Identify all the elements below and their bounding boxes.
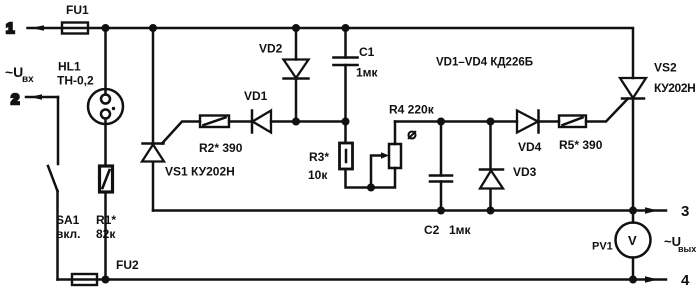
label ~Uвх [5, 64, 34, 85]
thyristor VS1 [142, 28, 235, 211]
svg-text:VD1–VD4 КД226Б: VD1–VD4 КД226Б [436, 57, 533, 69]
node top rail / VD2 branch [292, 24, 300, 32]
svg-text:ТН-0,2: ТН-0,2 [57, 74, 94, 88]
svg-text:10к: 10к [308, 168, 328, 182]
svg-text:FU1: FU1 [66, 3, 89, 17]
svg-text:V: V [628, 233, 637, 248]
svg-text:R1*: R1* [96, 213, 116, 227]
voltmeter PV1 [592, 223, 651, 280]
capacitor C2 [424, 122, 472, 238]
wire VD1 to node [271, 120, 346, 123]
resistor R2 [199, 116, 243, 156]
svg-text:R2* 390: R2* 390 [199, 141, 243, 155]
switch SA1 [48, 166, 81, 241]
svg-text:C2: C2 [424, 223, 440, 237]
label ~Uвых [664, 234, 696, 254]
svg-text:VS2: VS2 [654, 61, 677, 75]
lamp HL1 [57, 28, 123, 166]
svg-text:4: 4 [681, 272, 690, 289]
svg-text:82к: 82к [96, 227, 116, 241]
terminal 3 [645, 203, 689, 220]
svg-text:HL1: HL1 [58, 60, 81, 74]
svg-text:1мк: 1мк [449, 223, 472, 237]
potentiometer R4 [389, 103, 435, 169]
svg-text:2: 2 [11, 91, 19, 108]
svg-text:3: 3 [681, 203, 689, 220]
wire R4 node line [395, 120, 517, 123]
resistor R1 [96, 166, 116, 280]
adjustment symbol [409, 132, 416, 139]
diode VD1 [244, 89, 271, 133]
diode VD2 [259, 28, 309, 122]
node VD3 top [487, 118, 495, 126]
node VD2 bottom [292, 118, 300, 126]
svg-text:вых: вых [678, 244, 696, 254]
node VD3 bottom [487, 207, 495, 215]
wire VS1 gate [162, 122, 200, 144]
svg-text:VD4: VD4 [518, 140, 542, 154]
svg-text:SA1: SA1 [56, 213, 80, 227]
svg-text:R5* 390: R5* 390 [559, 138, 603, 152]
svg-text:1: 1 [6, 20, 14, 37]
svg-text:вх: вх [22, 74, 34, 85]
wire top rail [62, 28, 633, 78]
wire VD4 to R5 [539, 120, 560, 123]
wire line 3 [153, 209, 666, 212]
svg-text:VD2: VD2 [259, 42, 283, 56]
svg-text:~U: ~U [5, 64, 23, 80]
svg-text:R3*: R3* [309, 150, 329, 164]
node C2 bottom [437, 207, 445, 215]
svg-text:VD3: VD3 [513, 165, 537, 179]
terminal 4 [645, 272, 690, 289]
wire line 4 [58, 278, 667, 281]
svg-text:C1: C1 [359, 45, 375, 59]
wire R3 bottom to pot bottom [346, 168, 396, 188]
terminal 1 [6, 20, 62, 37]
thyristor VS2 [620, 61, 695, 223]
svg-text:вкл.: вкл. [56, 227, 81, 241]
svg-text:FU2: FU2 [116, 258, 139, 272]
node top rail / C1 branch [342, 24, 350, 32]
node VS2 line4 [629, 276, 637, 284]
node VS2 line3 [629, 207, 637, 215]
svg-text:R4 220к: R4 220к [389, 103, 435, 117]
fuse FU2 [72, 274, 97, 285]
resistor R3 [308, 122, 353, 183]
resistor R5 [559, 116, 603, 153]
fuse FU1 [62, 23, 88, 34]
diode VD4 [517, 111, 542, 155]
node top rail / HL1 branch [102, 24, 110, 32]
node C1 bottom / R3 top [342, 118, 350, 126]
wire wiper [371, 152, 389, 187]
node C2 top [437, 118, 445, 126]
node top rail / VS1 branch [149, 24, 157, 32]
svg-text:PV1: PV1 [592, 241, 613, 253]
svg-text:VD1: VD1 [244, 89, 268, 103]
wire R5 to VS2 gate [586, 99, 628, 122]
node wiper junction [367, 184, 375, 192]
svg-text:1мк: 1мк [356, 66, 379, 80]
wire R2 to VD1 [229, 120, 252, 123]
diode VD3 [480, 122, 537, 211]
terminal 2 [11, 91, 58, 108]
wire switch to line4 [56, 191, 59, 280]
svg-text:VS1 КУ202Н: VS1 КУ202Н [165, 165, 235, 179]
node R1 / line4 [102, 276, 110, 284]
wire terminal2 to switch [57, 97, 60, 164]
svg-text:КУ202Н: КУ202Н [654, 81, 695, 95]
capacitor C1 [334, 28, 379, 122]
